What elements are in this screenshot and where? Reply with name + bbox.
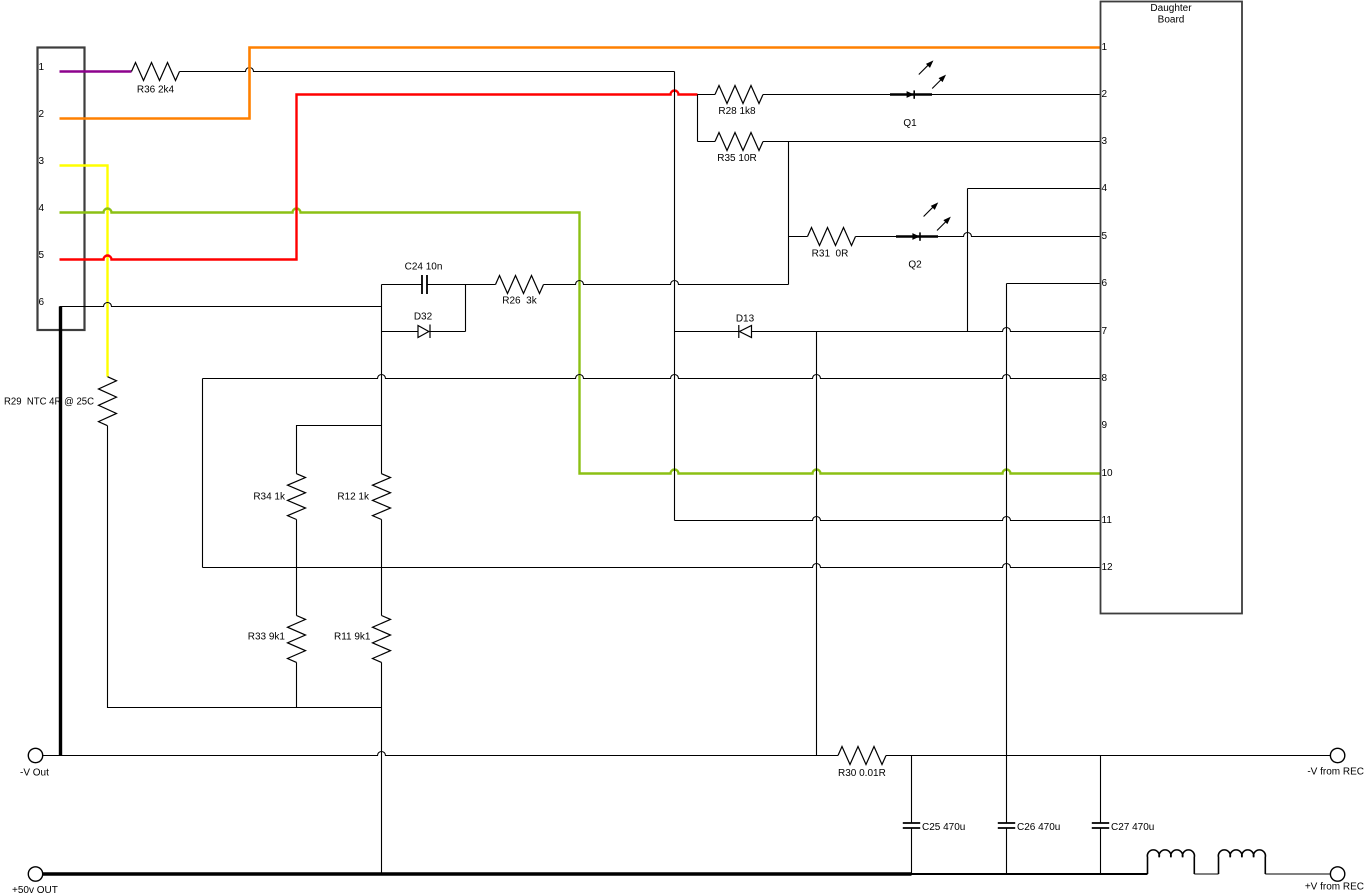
svg-text:C26 470u: C26 470u [1017, 822, 1060, 833]
wire C24 left lead [382, 284, 423, 286]
wire D32 right lead [430, 331, 466, 333]
svg-text:Daughter: Daughter [1150, 3, 1192, 14]
wire R29 bottom [108, 426, 382, 708]
wire C26 bottom lead [1006, 828, 1008, 874]
LED Q2 [912, 232, 920, 240]
wire Q2 to daughter pin5 [938, 233, 1101, 237]
svg-text:3: 3 [39, 156, 45, 167]
svg-text:D13: D13 [736, 314, 755, 325]
svg-text:R35 10R: R35 10R [717, 153, 756, 164]
svg-text:5: 5 [39, 250, 45, 261]
svg-text:4: 4 [1102, 183, 1108, 194]
wire between inductors [1194, 873, 1218, 875]
terminal +50v OUT [28, 867, 42, 881]
svg-text:7: 7 [1102, 326, 1108, 337]
resistor R26 [496, 276, 544, 294]
svg-text:1: 1 [1102, 42, 1108, 53]
wire R34-R33 [296, 520, 298, 616]
resistor R35 [715, 133, 763, 151]
resistor R36 [132, 63, 180, 81]
svg-text:6: 6 [1102, 278, 1108, 289]
wire R28 left lead [698, 94, 716, 96]
svg-text:9: 9 [1102, 420, 1108, 431]
terminal +V from REC [1330, 867, 1344, 881]
wire R34-R12 top [297, 426, 382, 474]
daughter board U1 [1101, 2, 1243, 614]
wire to daughter pin12 [203, 564, 1101, 568]
wire R33 bottom [296, 662, 298, 707]
svg-text:R12 1k: R12 1k [337, 492, 370, 503]
svg-text:1: 1 [39, 62, 45, 73]
wire C24 right lead [427, 284, 496, 286]
svg-text:8: 8 [1102, 373, 1108, 384]
wire R35 left lead [698, 141, 716, 143]
svg-text:12: 12 [1102, 562, 1114, 573]
resistor R12 [373, 474, 391, 520]
svg-text:5: 5 [1102, 231, 1108, 242]
wire daughter pin6 [1007, 283, 1101, 285]
resistor R28 [715, 86, 763, 104]
wire R28 to Q1 [763, 94, 890, 96]
wire node R31 vertical [788, 142, 790, 285]
diode D32 [418, 325, 430, 339]
LED Q2 arrows [924, 204, 950, 231]
svg-text:Q1: Q1 [903, 118, 917, 129]
wire node C24 left vertical [381, 285, 383, 474]
wire to D13 [675, 331, 739, 333]
capacitor C24 [422, 275, 427, 294]
svg-text:R28 1k8: R28 1k8 [718, 106, 756, 117]
wire R31 to Q2 [856, 236, 897, 238]
diode D13 [739, 325, 752, 338]
wire -V vertical [59, 307, 62, 756]
svg-text:+V from REC: +V from REC [1305, 882, 1364, 893]
resistor R29 NTC [99, 377, 117, 426]
wire C27 bottom lead [1100, 828, 1102, 874]
svg-text:+50v OUT: +50v OUT [12, 885, 58, 896]
svg-text:-V Out: -V Out [20, 768, 49, 779]
svg-text:11: 11 [1102, 515, 1113, 526]
wire pin1 purple [60, 70, 132, 72]
svg-text:R26 3k: R26 3k [502, 296, 537, 307]
capacitor C27 [1092, 823, 1109, 828]
wire R26 to R31 node [544, 281, 789, 285]
wire pin5 red [60, 91, 698, 260]
capacitor C25 [903, 823, 920, 828]
wire D13 to daughter pin7 [752, 328, 1101, 332]
resistor R30 [838, 747, 886, 765]
wire pin3 yellow [60, 166, 108, 377]
wire daughter pin4 [968, 188, 1101, 190]
wire daughter pin11 [675, 517, 1101, 521]
wire pin4 green to daughter pin10 [60, 209, 1101, 474]
resistor R33 [288, 616, 306, 663]
resistor R31 [808, 228, 856, 246]
wire C24-D32 right vertical [465, 285, 467, 332]
LED Q1 [907, 90, 915, 98]
wire L2 to terminal [1265, 873, 1330, 875]
svg-text:C24 10n: C24 10n [405, 262, 443, 273]
wire C25 top lead [911, 756, 913, 824]
svg-text:R36 2k4: R36 2k4 [137, 85, 175, 96]
wire C27 top lead [1100, 756, 1102, 824]
label Daughter Board [1150, 3, 1192, 26]
wire -V rail right [886, 755, 1330, 757]
wire +V rail thick [43, 872, 912, 875]
wire +V rail mid [912, 873, 1148, 875]
terminal -V Out [28, 748, 42, 762]
svg-text:3: 3 [1102, 136, 1108, 147]
LED Q1 arrows [919, 62, 945, 89]
wire R28-R35 vertical [697, 95, 699, 142]
svg-text:-V from REC: -V from REC [1307, 767, 1364, 778]
resistor R34 [288, 474, 306, 520]
svg-text:R11 9k1: R11 9k1 [334, 632, 371, 643]
svg-text:R33 9k1: R33 9k1 [248, 632, 286, 643]
svg-text:D32: D32 [414, 311, 433, 322]
wire pin6 [60, 303, 382, 307]
svg-text:Q2: Q2 [908, 260, 922, 271]
wire pin8-pin12 bracket [202, 379, 204, 568]
terminal -V from REC [1330, 748, 1344, 762]
wire C25 bottom lead [911, 828, 913, 874]
wire node A vertical [674, 72, 676, 521]
wire Q1 to daughter pin2 [932, 94, 1101, 96]
wire -V rail left [43, 752, 838, 756]
svg-text:R34 1k: R34 1k [253, 492, 286, 503]
wire R31 left lead [789, 236, 808, 238]
svg-text:2: 2 [1102, 89, 1108, 100]
svg-text:C27 470u: C27 470u [1111, 822, 1154, 833]
wire pin4-pin7 vertical [967, 189, 969, 332]
wire pin6-C26 vertical [1006, 284, 1008, 824]
svg-text:R29 NTC 4R @ 25C: R29 NTC 4R @ 25C [4, 397, 94, 408]
connector J1 [38, 48, 85, 331]
wire Q2 heavy [896, 235, 938, 237]
svg-text:2: 2 [39, 109, 45, 120]
svg-text:C25 470u: C25 470u [922, 822, 965, 833]
capacitor C26 [998, 823, 1015, 828]
wire pin1 to node [180, 68, 675, 72]
inductor L2 [1218, 850, 1265, 874]
wire Q1 heavy [890, 93, 932, 95]
svg-text:10: 10 [1102, 468, 1114, 479]
wire R35 to daughter pin3 [763, 141, 1101, 143]
wire R12-R11 [381, 520, 383, 616]
svg-text:R31 0R: R31 0R [812, 249, 849, 260]
inductor L1 [1147, 850, 1194, 874]
wire D32 left lead [382, 331, 419, 333]
svg-text:R30 0.01R: R30 0.01R [838, 768, 886, 779]
wire pin2 orange [60, 48, 1101, 119]
svg-text:6: 6 [39, 297, 45, 308]
wire node D13 down [816, 332, 818, 756]
svg-text:Board: Board [1158, 15, 1185, 26]
resistor R11 [373, 616, 391, 663]
wire R11 bottom to +V [381, 662, 383, 874]
svg-text:4: 4 [39, 203, 45, 214]
wire to daughter pin8 [203, 375, 1101, 379]
